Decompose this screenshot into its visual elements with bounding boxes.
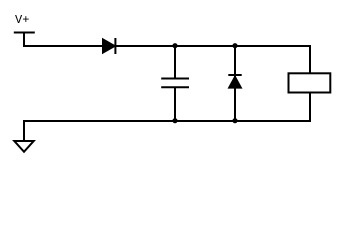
svg-text:V+: V+: [15, 13, 29, 27]
